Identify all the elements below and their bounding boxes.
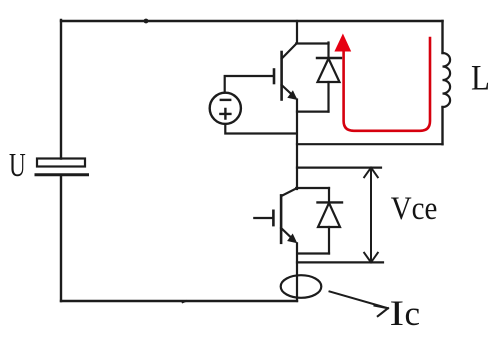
wire gate stub Q2 xyxy=(254,217,272,219)
svg-text:U: U xyxy=(9,147,26,184)
wire drive source bottom to Q1 emitter xyxy=(225,124,296,134)
diode D2 lower freewheel xyxy=(318,188,343,254)
wire top rail xyxy=(61,20,443,22)
node speck on bottom rail xyxy=(183,301,187,303)
wire Q2 collector xyxy=(296,187,329,189)
label Ic subscript c xyxy=(405,294,421,333)
wire Q1 emitter vertical xyxy=(296,100,298,190)
wire load bottom rail xyxy=(297,143,443,145)
transistor Q1 upper IGBT xyxy=(274,44,298,101)
wire bottom rail xyxy=(61,300,297,302)
svg-text:I: I xyxy=(390,293,405,333)
label Ic xyxy=(390,293,405,333)
wire Vce top reference xyxy=(297,167,381,169)
svg-text:L: L xyxy=(471,58,490,98)
wire Vce bottom reference xyxy=(297,261,383,263)
svg-text:Vce: Vce xyxy=(391,190,438,226)
label U xyxy=(9,147,26,184)
wire D2 anode to Q2 emitter xyxy=(298,252,330,254)
transistor Q2 lower IGBT xyxy=(273,188,297,243)
inductor L xyxy=(443,21,451,144)
wire center vertical (Q1 collector from top rail) xyxy=(296,21,328,44)
wire gate lead Q1 xyxy=(225,76,273,93)
annotation arrow to Ic xyxy=(330,292,389,317)
node junction dot on top rail xyxy=(144,19,149,24)
diode D1 upper freewheel xyxy=(317,43,341,112)
wire Q2 emitter vertical to bottom rail xyxy=(296,243,298,301)
red current path with arrow xyxy=(334,34,430,131)
source gate drive V1 xyxy=(210,93,241,124)
svg-text:c: c xyxy=(405,294,421,333)
label Vce xyxy=(391,190,438,226)
current probe ellipse xyxy=(281,275,322,298)
capacitor U top plate xyxy=(37,159,85,167)
measurement arrow Vce xyxy=(364,168,378,263)
label L xyxy=(471,58,490,98)
wire left vertical upper xyxy=(60,20,62,159)
capacitor U bottom plate xyxy=(36,173,88,176)
wire left vertical lower xyxy=(60,175,62,301)
wire D1 anode to Q1 emitter xyxy=(297,110,329,112)
